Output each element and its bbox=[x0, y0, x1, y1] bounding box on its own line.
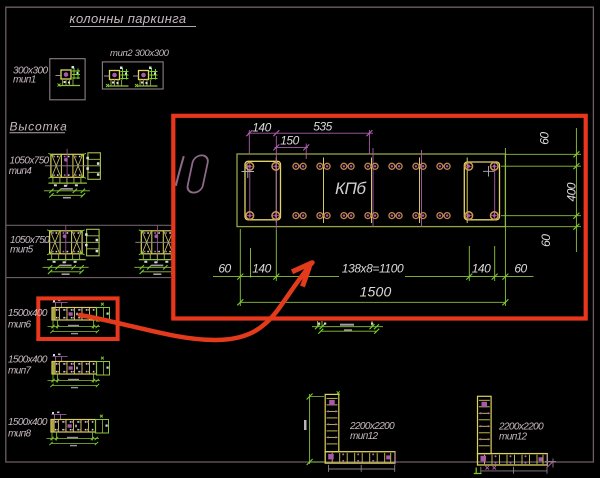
top dimensions 140 535 150 bbox=[246, 120, 373, 160]
svg-text:140: 140 bbox=[252, 120, 271, 134]
bottom dimensions 60 140 138x8=1100 140 60 bbox=[213, 148, 534, 306]
left stirrup bbox=[245, 161, 281, 220]
svg-text:тип5: тип5 bbox=[10, 245, 34, 256]
svg-text:140: 140 bbox=[472, 262, 491, 276]
svg-text:1500: 1500 bbox=[360, 284, 392, 300]
separator line between тип5 and тип6 rows bbox=[6, 277, 171, 279]
label: 2200x2200 тип12 (right) bbox=[498, 421, 544, 442]
red callout rectangle (detail view) bbox=[173, 116, 585, 319]
label: 1500x400 тип7 bbox=[8, 355, 48, 377]
detail beam outline bbox=[237, 154, 505, 227]
svg-text:тип2 300x300: тип2 300x300 bbox=[110, 48, 170, 59]
svg-text:60: 60 bbox=[539, 234, 553, 247]
svg-text:тип12: тип12 bbox=[499, 431, 528, 442]
svg-text:Высотка: Высотка bbox=[10, 120, 68, 134]
background glyph 0 (partial) bbox=[176, 156, 184, 186]
label: 1050x750 тип5 bbox=[10, 235, 50, 256]
bay division lines bbox=[276, 158, 467, 224]
column drawing тип4 bbox=[44, 149, 101, 199]
svg-text:60: 60 bbox=[514, 262, 527, 276]
title: колонны паркинга bbox=[69, 11, 196, 26]
svg-text:140: 140 bbox=[252, 262, 271, 276]
svg-text:тип7: тип7 bbox=[8, 366, 31, 377]
svg-text:КПб: КПб bbox=[335, 179, 367, 198]
box тип1 bbox=[50, 59, 85, 100]
svg-text:тип8: тип8 bbox=[8, 429, 31, 440]
corner mark тип12-b bbox=[474, 459, 556, 475]
middle drawing partial dims below callout bbox=[312, 321, 383, 334]
stirrup tie circles (pairs) bbox=[293, 163, 450, 218]
dim line left of тип12-a bbox=[304, 391, 340, 465]
corner rebar circles bbox=[246, 163, 498, 220]
label: 1500x400 тип6 bbox=[8, 308, 48, 331]
svg-text:60: 60 bbox=[538, 132, 552, 145]
centre mark right bbox=[483, 166, 494, 177]
right dimensions 60 400 60 bbox=[501, 128, 581, 252]
beam drawing тип6 bbox=[48, 300, 110, 335]
label: 1050x750 тип4 bbox=[9, 156, 50, 177]
svg-text:138x8=1100: 138x8=1100 bbox=[342, 262, 404, 276]
svg-text:колонны паркинга: колонны паркинга bbox=[69, 11, 186, 26]
svg-text:тип6: тип6 bbox=[8, 320, 31, 331]
svg-text:1500x400: 1500x400 bbox=[8, 417, 48, 428]
right stirrup bbox=[464, 162, 499, 220]
heading: Высотка bbox=[10, 120, 68, 134]
svg-text:535: 535 bbox=[313, 120, 332, 134]
box тип2 bbox=[102, 62, 163, 89]
column drawing тип5-b (partly hidden by red callout) bbox=[134, 225, 191, 275]
svg-text:1500x400: 1500x400 bbox=[8, 355, 48, 366]
red source rectangle around тип6 bbox=[38, 298, 117, 339]
svg-text:60: 60 bbox=[218, 262, 231, 276]
beam drawing тип8 bbox=[47, 412, 109, 447]
svg-text:тип1: тип1 bbox=[13, 75, 36, 86]
label: 1500x400 тип8 bbox=[8, 417, 48, 440]
column section icon тип1 bbox=[56, 66, 81, 87]
svg-text:1500x400: 1500x400 bbox=[8, 308, 48, 319]
centre mark left bbox=[242, 165, 255, 178]
corner column drawing тип12-b bbox=[478, 396, 548, 474]
background glyph 0 bbox=[186, 155, 209, 192]
red callout arrow bbox=[80, 263, 313, 341]
svg-text:тип4: тип4 bbox=[9, 166, 33, 177]
corner column drawing тип12-a bbox=[325, 394, 395, 472]
label: 300x300 тип1 bbox=[13, 66, 49, 86]
svg-text:150: 150 bbox=[280, 134, 299, 148]
magenta rebar lines bbox=[250, 136, 495, 230]
column drawing тип5-a bbox=[43, 225, 100, 275]
column section icon тип2-a bbox=[104, 67, 129, 88]
column section icon тип2-b bbox=[133, 67, 158, 88]
svg-text:тип12: тип12 bbox=[350, 431, 379, 442]
svg-text:400: 400 bbox=[565, 182, 579, 201]
separator line between тип4 and тип5 rows bbox=[6, 224, 172, 226]
label: 2200x2200 тип12 (left) bbox=[349, 421, 395, 442]
beam drawing тип7 bbox=[48, 354, 110, 389]
